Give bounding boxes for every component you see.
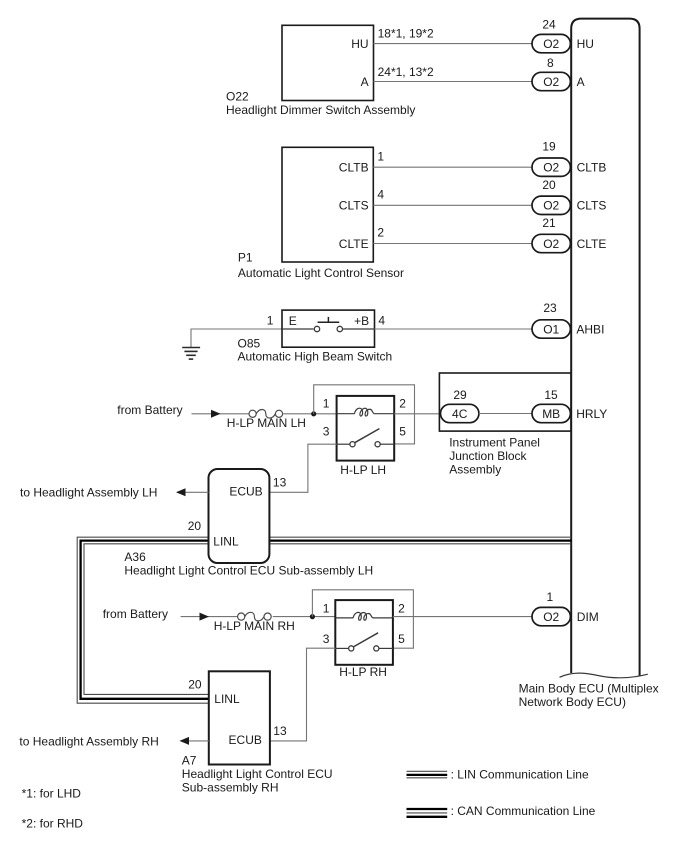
- svg-text:4: 4: [377, 188, 384, 202]
- svg-text:20: 20: [188, 677, 202, 691]
- svg-text:5: 5: [399, 425, 406, 439]
- svg-text:2: 2: [398, 602, 405, 616]
- wire CLTS: [373, 204, 532, 206]
- svg-text:P1: P1: [238, 250, 253, 264]
- svg-text:E: E: [289, 314, 297, 328]
- junction: [311, 411, 316, 416]
- svg-text:CLTS: CLTS: [339, 199, 369, 213]
- svg-text:Headlight Light Control ECU Su: Headlight Light Control ECU Sub-assembly…: [124, 563, 373, 577]
- switch O85 Automatic High Beam Switch: [282, 310, 375, 347]
- ECU A36 Headlight Light Control ECU Sub-assembly LH: [209, 469, 270, 563]
- svg-text:13: 13: [273, 475, 287, 489]
- wire to headlight assembly RH: [181, 740, 209, 742]
- wire from battery LH: [192, 413, 250, 415]
- svg-text:5: 5: [398, 632, 405, 646]
- wire relay to DIM: [393, 616, 532, 618]
- svg-text:20: 20: [542, 178, 556, 192]
- svg-text:Automatic Light Control Sensor: Automatic Light Control Sensor: [238, 266, 404, 280]
- svg-text:Instrument Panel: Instrument Panel: [449, 435, 540, 449]
- wire AHBI: [375, 328, 533, 330]
- relay H-LP LH: [337, 396, 395, 461]
- legend LIN communication line: [407, 770, 448, 772]
- svg-text:CLTB: CLTB: [577, 161, 607, 175]
- svg-text:Assembly: Assembly: [449, 462, 501, 476]
- svg-text:13: 13: [273, 724, 287, 738]
- junction: [310, 614, 315, 619]
- svg-text:H-LP RH: H-LP RH: [339, 665, 387, 679]
- svg-text:A36: A36: [124, 550, 146, 564]
- junction block: Instrument Panel Junction Block Assembly: [439, 373, 571, 431]
- svg-text:4C: 4C: [452, 407, 468, 421]
- svg-text:to Headlight Assembly RH: to Headlight Assembly RH: [19, 734, 158, 748]
- wire battery loop to contact 5: [312, 590, 413, 648]
- svg-text:2: 2: [399, 396, 406, 410]
- wire contact 3 to A36 ECUB: [269, 444, 336, 492]
- svg-text:from Battery: from Battery: [103, 607, 168, 621]
- legend CAN communication line: [407, 808, 448, 810]
- svg-text:Sub-assembly RH: Sub-assembly RH: [182, 781, 279, 795]
- svg-text:1: 1: [323, 602, 330, 616]
- svg-text:H-LP MAIN RH: H-LP MAIN RH: [214, 619, 295, 633]
- svg-text:to Headlight Assembly LH: to Headlight Assembly LH: [20, 485, 157, 499]
- svg-text:Automatic High Beam Switch: Automatic High Beam Switch: [238, 349, 393, 363]
- svg-text:O2: O2: [543, 75, 559, 89]
- wire to headlight assembly LH: [177, 491, 209, 493]
- svg-text:ECUB: ECUB: [229, 733, 262, 747]
- svg-text:O22: O22: [226, 89, 249, 103]
- svg-text:HU: HU: [351, 37, 368, 51]
- svg-text:3: 3: [323, 632, 330, 646]
- svg-text:15: 15: [544, 388, 558, 402]
- svg-text:DIM: DIM: [577, 610, 599, 624]
- wire relay coil to 4C: [394, 413, 441, 415]
- switch O22 Headlight Dimmer Switch Assembly: [282, 25, 374, 100]
- svg-text:18*1, 19*2: 18*1, 19*2: [378, 27, 434, 41]
- svg-text:A7: A7: [182, 754, 197, 768]
- svg-text:Main Body ECU (Multiplex: Main Body ECU (Multiplex: [519, 681, 659, 695]
- svg-text:O2: O2: [543, 161, 559, 175]
- svg-text:1: 1: [323, 396, 330, 410]
- ground: [191, 329, 282, 347]
- svg-text:H-LP LH: H-LP LH: [340, 463, 386, 477]
- svg-text:CLTS: CLTS: [577, 199, 607, 213]
- svg-text:19: 19: [542, 139, 556, 153]
- svg-text:A: A: [361, 75, 369, 89]
- svg-text:: CAN Communication Line: : CAN Communication Line: [451, 804, 596, 818]
- LIN bus A36 to A7 (left loop): [77, 537, 209, 703]
- svg-text:1: 1: [377, 149, 384, 163]
- svg-text:O2: O2: [543, 37, 559, 51]
- svg-text:20: 20: [188, 519, 202, 533]
- svg-text:: LIN Communication Line: : LIN Communication Line: [451, 767, 589, 781]
- svg-text:O2: O2: [543, 610, 559, 624]
- svg-text:LINL: LINL: [214, 692, 240, 706]
- svg-text:AHBI: AHBI: [576, 322, 604, 336]
- ECU A7 Headlight Light Control ECU Sub-assembly RH: [209, 671, 270, 764]
- wire O22 A to ECU: [374, 81, 533, 83]
- svg-text:Headlight Dimmer Switch Assemb: Headlight Dimmer Switch Assembly: [226, 103, 415, 117]
- svg-text:CLTE: CLTE: [339, 237, 369, 251]
- svg-text:2: 2: [377, 226, 384, 240]
- svg-text:23: 23: [543, 301, 557, 315]
- svg-text:O1: O1: [543, 322, 559, 336]
- wire fuse to relay coil: [283, 413, 337, 415]
- svg-text:ECUB: ECUB: [229, 484, 262, 498]
- svg-text:O2: O2: [543, 237, 559, 251]
- svg-text:Headlight Light Control ECU: Headlight Light Control ECU: [182, 767, 333, 781]
- svg-text:21: 21: [542, 216, 556, 230]
- LIN bus A36 to main body ECU: [269, 536, 571, 538]
- svg-text:Network Body ECU): Network Body ECU): [519, 695, 626, 709]
- svg-text:24*1, 13*2: 24*1, 13*2: [378, 65, 434, 79]
- svg-text:*1: for LHD: *1: for LHD: [22, 787, 82, 801]
- fuse H-LP MAIN LH: [249, 410, 256, 417]
- wire CLTB: [373, 166, 532, 168]
- svg-text:29: 29: [453, 388, 467, 402]
- svg-text:1: 1: [267, 314, 274, 328]
- svg-text:A: A: [577, 75, 585, 89]
- svg-text:4: 4: [378, 314, 385, 328]
- svg-text:H-LP MAIN LH: H-LP MAIN LH: [227, 416, 306, 430]
- main body ECU (multiplex network body ECU): [571, 19, 639, 677]
- svg-text:+B: +B: [354, 314, 369, 328]
- wire fuse to relay coil: [273, 616, 336, 618]
- wire contact 3 to A7 ECUB: [270, 648, 335, 741]
- svg-text:O2: O2: [543, 199, 559, 213]
- svg-text:3: 3: [323, 425, 330, 439]
- svg-text:LINL: LINL: [213, 534, 239, 548]
- svg-text:CLTE: CLTE: [577, 237, 607, 251]
- wire battery loop to contact 5: [314, 385, 415, 444]
- relay H-LP RH: [335, 600, 393, 665]
- svg-text:HU: HU: [577, 37, 594, 51]
- sensor P1 Automatic Light Control Sensor: [282, 147, 373, 262]
- svg-text:CLTB: CLTB: [339, 161, 369, 175]
- svg-text:from Battery: from Battery: [117, 403, 182, 417]
- fuse H-LP MAIN RH: [238, 613, 245, 620]
- wire O22 HU to ECU: [374, 43, 533, 45]
- momentary contact symbol: [282, 328, 314, 330]
- svg-text:MB: MB: [542, 407, 560, 421]
- wire CLTE: [373, 243, 532, 245]
- svg-text:Junction Block: Junction Block: [449, 449, 527, 463]
- wire 4C to MB: [479, 413, 532, 415]
- svg-text:HRLY: HRLY: [576, 407, 607, 421]
- svg-text:8: 8: [547, 56, 554, 70]
- svg-text:*2: for RHD: *2: for RHD: [22, 816, 84, 830]
- wire from battery RH: [181, 616, 239, 618]
- svg-text:24: 24: [542, 18, 556, 32]
- svg-text:1: 1: [547, 590, 554, 604]
